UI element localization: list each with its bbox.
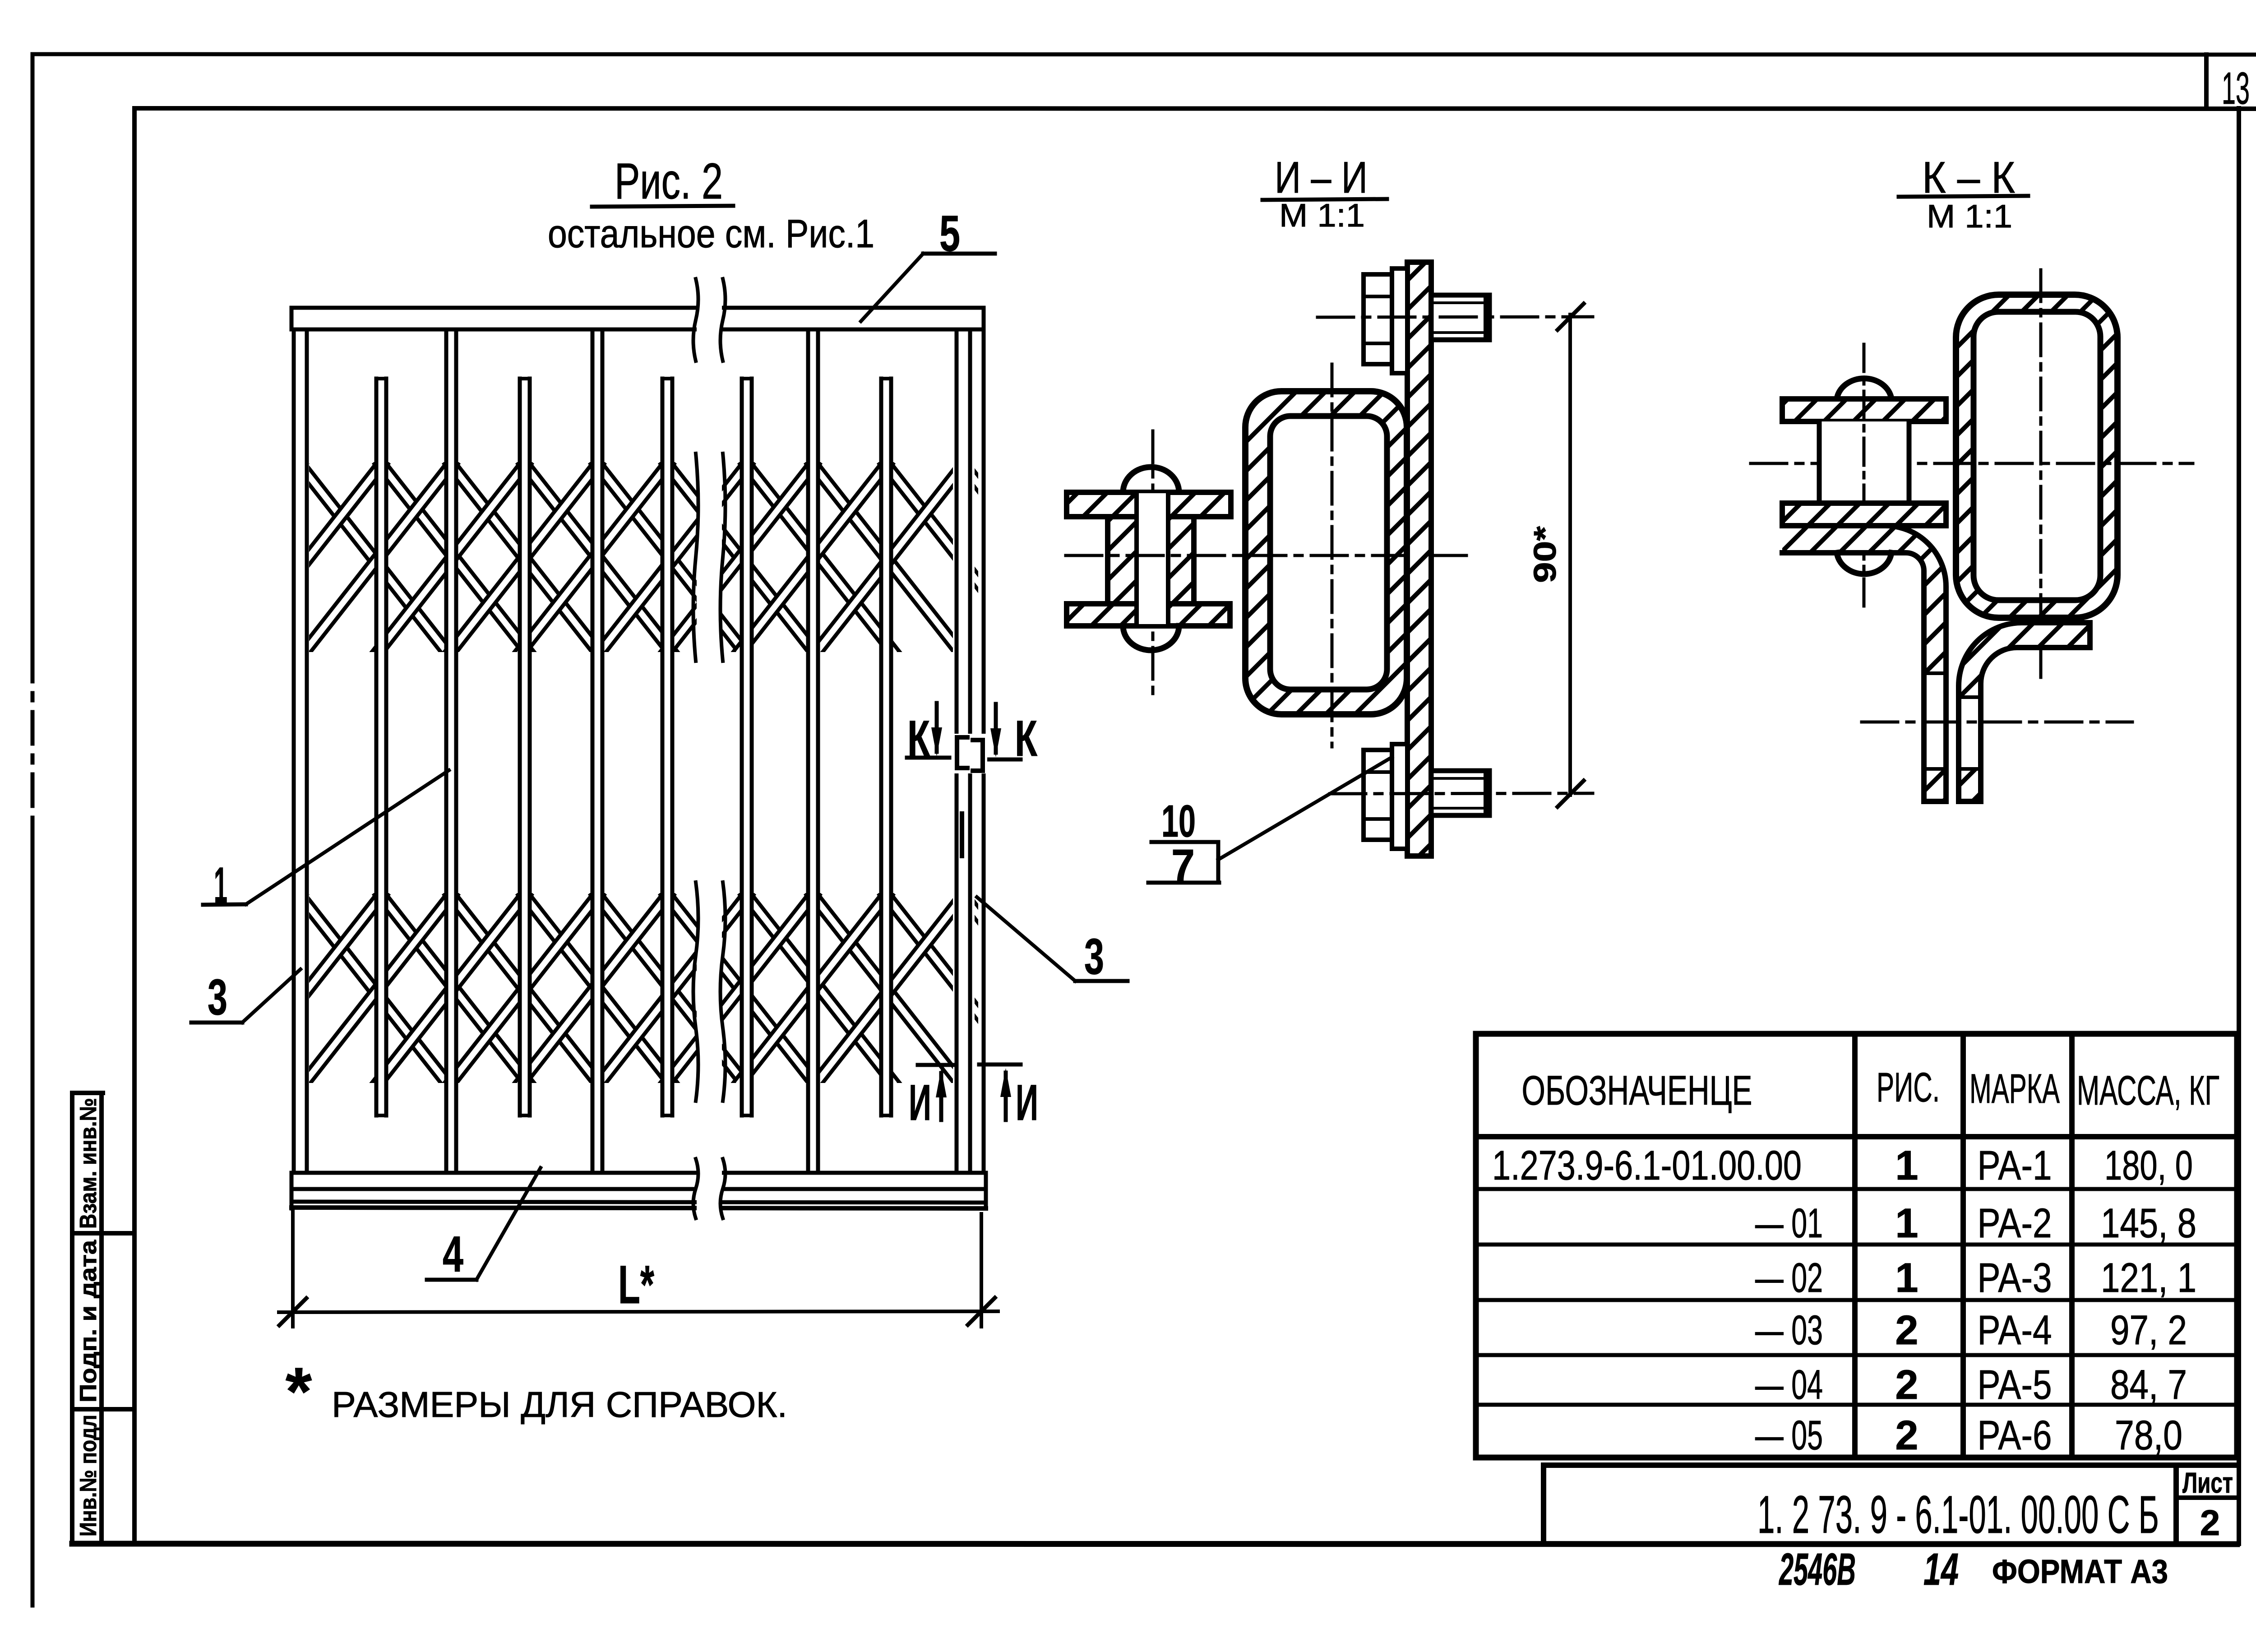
section mark I right letter [1016, 1074, 1038, 1131]
dimension tick left [279, 1298, 306, 1325]
part label 4 [443, 1226, 463, 1282]
table header bottom line [1476, 1134, 2237, 1139]
svg-text:1: 1 [1895, 1255, 1918, 1301]
gate drawing break gap [697, 278, 722, 1226]
I-I channel outer contour [1245, 391, 1407, 714]
I-I rivet bottom dome head [1123, 626, 1179, 650]
label 3 right tick [1075, 979, 1128, 983]
gate long slat 2 [591, 329, 604, 1173]
side stamp left vertical line [70, 1093, 74, 1544]
svg-text:90*: 90* [1527, 526, 1563, 583]
K-K middle washer [1782, 503, 1946, 526]
table header MASSA KG [2077, 1068, 2219, 1114]
K-K strap B gap boundary lines [1959, 697, 1981, 769]
svg-text:Лист: Лист [2182, 1467, 2233, 1499]
section mark I left letter [909, 1074, 931, 1131]
gate short slat 5 [879, 379, 893, 1115]
section mark I right arrow [1000, 1068, 1011, 1120]
K-K strap A gap boundary lines [1924, 673, 1946, 769]
title block list divider vertical [2173, 1465, 2179, 1544]
break wavy lines bottom rail [693, 1159, 726, 1218]
gate short slat 4 [740, 379, 754, 1115]
table row 5 mass [2110, 1362, 2187, 1408]
gate top rail [291, 306, 986, 331]
I-I mounting plate (hatched) [1407, 262, 1431, 856]
table row 3 mass [2101, 1255, 2196, 1301]
section I-I scale M 1:1 [1279, 198, 1365, 234]
svg-text:М 1:1: М 1:1 [1279, 198, 1365, 234]
dimension line L [279, 1311, 998, 1312]
svg-text:L*: L* [618, 1254, 654, 1315]
gate short slat 2 [518, 379, 532, 1115]
svg-text:2546В: 2546В [1779, 1544, 1856, 1595]
svg-text:10: 10 [1161, 796, 1196, 847]
svg-text:13: 13 [2222, 63, 2250, 114]
section K-K title [1922, 153, 2015, 202]
figure title underline [592, 206, 733, 207]
section mark K left letter [907, 710, 930, 767]
K-K tube inner contour [1974, 312, 2100, 600]
table row 4 mark [1978, 1307, 2052, 1353]
lower lattice band of scissor gate [154, 896, 1110, 1082]
table row 4 designation [1755, 1307, 1823, 1353]
label 4 underline [427, 1278, 476, 1282]
inner frame bottom line [72, 1544, 2237, 1544]
table row 2 mass [2101, 1200, 2196, 1246]
label 1 tick [203, 904, 246, 905]
break wavy lines top rail [693, 279, 726, 361]
parts table outline [1476, 1034, 2237, 1458]
svg-text:— 05: — 05 [1755, 1412, 1823, 1458]
svg-text:78,0: 78,0 [2115, 1412, 2182, 1458]
svg-text:И: И [1016, 1074, 1038, 1131]
table header MARKA [1969, 1066, 2060, 1112]
section mark K left arrow [931, 703, 942, 756]
bottom note 14 [1923, 1544, 1959, 1595]
dimension line 90 [1568, 315, 1572, 795]
note text Razmery dlya spravok [332, 1384, 787, 1425]
svg-text:2: 2 [1895, 1412, 1918, 1458]
gate short slat 1 [374, 379, 388, 1115]
svg-text:1.273.9-6.1-01.00.00: 1.273.9-6.1-01.00.00 [1492, 1143, 1802, 1189]
gate long slat 3 [806, 329, 820, 1173]
section K-K title underline [1899, 196, 2028, 197]
section mark K right letter [1015, 710, 1037, 767]
I-I channel inner contour [1270, 416, 1387, 689]
table column line 1 [1852, 1034, 1858, 1458]
K-K strap A hatch gap [1921, 673, 1949, 769]
svg-text:1: 1 [1895, 1143, 1918, 1189]
svg-text:— 02: — 02 [1755, 1255, 1823, 1301]
svg-text:РИС.: РИС. [1877, 1064, 1940, 1111]
K-K rivet top dome head [1837, 379, 1891, 399]
K-K strap A outline [1782, 526, 1946, 801]
figure title Ris. 2 [615, 153, 723, 209]
part label 3 right [1084, 928, 1104, 985]
section mark K left underline [907, 756, 949, 760]
dimension 90 tick bottom [1558, 781, 1584, 807]
svg-text:4: 4 [443, 1226, 463, 1282]
K-K strap B outline [1959, 623, 2090, 801]
svg-text:РА-4: РА-4 [1978, 1307, 2052, 1353]
svg-text:Рис. 2: Рис. 2 [615, 153, 723, 209]
gate right stile pair [953, 329, 975, 1173]
I-I horizontal centerline [1066, 554, 1466, 557]
svg-text:ФОРМАТ А3: ФОРМАТ А3 [1992, 1553, 2168, 1590]
K-K tube hatched ring [1956, 295, 2117, 618]
label 4 leader line [476, 1168, 541, 1280]
section K-K scale M 1:1 [1927, 199, 2012, 235]
svg-text:РА-2: РА-2 [1978, 1200, 2052, 1246]
title block document number [1757, 1485, 2159, 1545]
label 3 right leader line [977, 897, 1075, 981]
table header OBOZNACHENIE [1522, 1068, 1752, 1114]
I-I pivot sleeve [1108, 517, 1194, 604]
label 1 leader line [246, 770, 449, 904]
section mark I left arrow [936, 1069, 947, 1120]
svg-text:И: И [909, 1074, 931, 1131]
I-I bottom washer [1067, 604, 1230, 626]
I-I channel hatched ring [1245, 391, 1407, 714]
sheet number 13 [2222, 63, 2250, 114]
gate short slat 3 [661, 379, 674, 1115]
table row 3 fig [1895, 1255, 1918, 1301]
I-I channel vertical centerline [1331, 364, 1334, 747]
K-K lower horizontal centerline [1862, 721, 2132, 724]
svg-text:*: * [286, 1353, 312, 1429]
table row 1 mark [1978, 1143, 2052, 1189]
inner frame top line [134, 108, 2256, 109]
table row 3 designation [1755, 1255, 1823, 1301]
table column line 3 [2069, 1034, 2075, 1458]
table row line 3 [1476, 1298, 2237, 1302]
title block list divider horizontal [2176, 1495, 2237, 1500]
I-I top bolt centerline [1318, 317, 1593, 317]
table row 1 designation [1492, 1143, 1802, 1189]
svg-text:РА-6: РА-6 [1978, 1412, 2052, 1458]
table row line 4 [1476, 1353, 2237, 1357]
bottom note FORMAT A3 [1992, 1553, 2168, 1590]
table row line 5 [1476, 1403, 2237, 1407]
title block left line [1541, 1465, 1546, 1544]
table header RIS [1877, 1064, 1940, 1111]
sheet outer left border line [31, 54, 35, 1606]
label 3 left leader line [242, 969, 300, 1023]
K-K tube outer contour [1956, 295, 2117, 618]
table row 2 mark [1978, 1200, 2052, 1246]
dimension text L* [618, 1254, 654, 1315]
side stamp middle vertical line [99, 1093, 104, 1544]
table row 2 fig [1895, 1200, 1918, 1246]
part label 5 [939, 205, 960, 262]
K-K tube vertical centerline [2039, 270, 2043, 677]
section mark I right overline [979, 1063, 1021, 1067]
svg-text:180, 0: 180, 0 [2104, 1143, 2193, 1189]
K-K strap B hatched region [1959, 623, 2090, 801]
label 10 over 7 [1148, 796, 1219, 891]
bottom note 2546V [1779, 1544, 1856, 1595]
svg-text:РА-5: РА-5 [1978, 1362, 2052, 1408]
label 5 underline [923, 252, 995, 256]
svg-text:остальное см. Рис.1: остальное см. Рис.1 [548, 211, 874, 256]
break wavy lines upper band [693, 453, 726, 661]
gate long slat 1 [444, 329, 458, 1173]
gate left stile (vertical frame member) [292, 308, 309, 1207]
svg-text:14: 14 [1923, 1544, 1959, 1595]
svg-text:84, 7: 84, 7 [2110, 1362, 2187, 1408]
svg-text:1. 2 73. 9 - 6.1-01. 00.00 С: 1. 2 73. 9 - 6.1-01. 00.00 С Б [1757, 1485, 2159, 1545]
table row 1 fig [1895, 1143, 1918, 1189]
sheet outer top border line [35, 54, 2256, 55]
svg-text:Подп. и дата: Подп. и дата [75, 1240, 102, 1402]
inner frame left line [132, 108, 137, 1544]
svg-text:МАРКА: МАРКА [1969, 1066, 2060, 1112]
table row line 1 [1476, 1187, 2237, 1191]
upper lattice band of scissor gate [154, 465, 1110, 651]
small tick on slat below K [960, 814, 964, 856]
lock bracket symbol on slat [952, 734, 987, 773]
svg-text:145, 8: 145, 8 [2101, 1200, 2196, 1246]
table row 1 mass [2104, 1143, 2193, 1189]
gate bottom rail [291, 1171, 986, 1209]
svg-text:121, 1: 121, 1 [2101, 1255, 2196, 1301]
side stamp divider line 1 [72, 1231, 134, 1236]
svg-text:— 01: — 01 [1755, 1200, 1823, 1246]
dimension 90 tick top [1558, 304, 1584, 330]
section mark I left overline [918, 1063, 953, 1067]
title block top line [1544, 1462, 2237, 1468]
svg-text:3: 3 [208, 969, 227, 1025]
dimension extension line right [980, 1214, 983, 1327]
side stamp top cap line [72, 1091, 103, 1095]
svg-text:— 04: — 04 [1755, 1362, 1823, 1408]
dimension tick right [968, 1298, 995, 1325]
side stamp label Vzam inv No [75, 1098, 102, 1229]
table column line 2 [1960, 1034, 1966, 1458]
gate right edge line [982, 308, 986, 1207]
svg-text:2: 2 [2200, 1503, 2220, 1543]
K-K pivot vertical centerline [1863, 344, 1866, 613]
title block word List [2182, 1467, 2233, 1499]
sheet number box top right [2206, 55, 2256, 108]
title block sheet number 2 [2200, 1503, 2220, 1543]
side stamp label Podp i data [75, 1240, 102, 1402]
svg-text:2: 2 [1895, 1362, 1918, 1408]
I-I bottom bolt centerline [1330, 793, 1593, 794]
svg-text:2: 2 [1895, 1307, 1918, 1353]
table row 5 designation [1755, 1362, 1823, 1408]
svg-text:К: К [1015, 710, 1037, 767]
I-I rivet shaft [1137, 493, 1168, 624]
K-K horizontal centerline [1751, 462, 2193, 465]
section I-I title underline [1262, 199, 1387, 200]
label 5 leader line [861, 254, 923, 321]
svg-text:М 1:1: М 1:1 [1927, 199, 2012, 235]
svg-text:97, 2: 97, 2 [2110, 1307, 2187, 1353]
section mark K right arrow [990, 704, 1001, 757]
table row 5 fig [1895, 1362, 1918, 1408]
table row 6 fig [1895, 1412, 1918, 1458]
break wavy lines lower band [693, 882, 726, 1101]
I-I pivot vertical centerline [1151, 431, 1155, 695]
K-K top washer [1782, 399, 1946, 421]
dimension extension line left [291, 1209, 295, 1327]
table row 3 mark [1978, 1255, 2052, 1301]
side stamp divider line 2 [72, 1407, 134, 1411]
K-K strap B hatch gap [1956, 697, 1984, 769]
dimension text 90* [1527, 526, 1563, 583]
label 10/7 leader line [1218, 757, 1392, 860]
I-I top washer [1067, 492, 1231, 517]
side stamp label Inv No podl [75, 1415, 102, 1536]
svg-text:РАЗМЕРЫ ДЛЯ СПРАВОК.: РАЗМЕРЫ ДЛЯ СПРАВОК. [332, 1384, 787, 1425]
I-I bottom bolt with washer [1364, 744, 1489, 849]
svg-text:3: 3 [1084, 928, 1104, 985]
part label 1 [214, 857, 227, 913]
table row line 2 [1476, 1243, 2237, 1247]
table row 4 mass [2110, 1307, 2187, 1353]
section mark K right underline [985, 758, 1021, 762]
svg-text:Инв.№ подл: Инв.№ подл [75, 1415, 102, 1536]
part label 3 left [208, 969, 227, 1025]
note asterisk [286, 1353, 312, 1429]
svg-text:1: 1 [1895, 1200, 1918, 1246]
label 3 left tick [191, 1021, 242, 1025]
K-K pivot sleeve [1819, 421, 1909, 503]
svg-text:РА-1: РА-1 [1978, 1143, 2052, 1189]
K-K strap A hatched region [1782, 526, 1946, 801]
svg-text:— 03: — 03 [1755, 1307, 1823, 1353]
I-I rivet top dome head [1123, 467, 1179, 492]
K-K rivet bottom dome head [1837, 553, 1891, 574]
table row 6 mass [2115, 1412, 2182, 1458]
table row 6 mark [1978, 1412, 2052, 1458]
svg-text:И – И: И – И [1275, 153, 1368, 202]
section I-I title [1275, 153, 1368, 202]
figure subtitle ostalnoe sm Ris.1 [548, 211, 874, 256]
table row 2 designation [1755, 1200, 1823, 1246]
svg-text:МАССА, КГ: МАССА, КГ [2077, 1068, 2219, 1114]
table row 4 fig [1895, 1307, 1918, 1353]
svg-text:РА-3: РА-3 [1978, 1255, 2052, 1301]
table row 5 mark [1978, 1362, 2052, 1408]
inner frame right line [2237, 108, 2241, 1544]
table row 6 designation [1755, 1412, 1823, 1458]
I-I top bolt with washer [1364, 268, 1489, 373]
svg-text:ОБОЗНАЧЕНЦЕ: ОБОЗНАЧЕНЦЕ [1522, 1068, 1752, 1114]
svg-text:Взам. инв.№: Взам. инв.№ [75, 1098, 102, 1229]
